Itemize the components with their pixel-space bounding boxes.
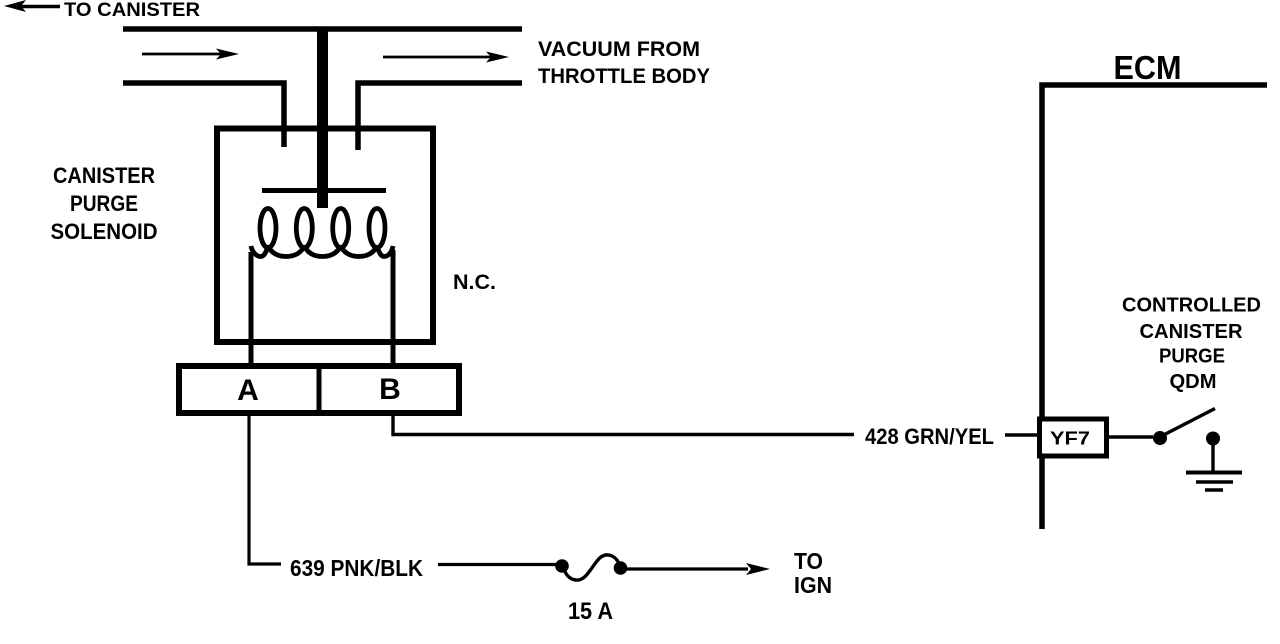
svg-text:TO: TO	[794, 548, 823, 574]
wire: lower pipe right segment	[358, 83, 522, 150]
svg-text:639 PNK/BLK: 639 PNK/BLK	[290, 555, 423, 581]
ground	[1186, 444, 1242, 490]
svg-text:CANISTER: CANISTER	[1140, 321, 1244, 343]
svg-text:YF7: YF7	[1050, 428, 1090, 449]
wire: coil lead right	[391, 250, 396, 366]
wire: fuse to ignition arrow	[627, 563, 770, 575]
svg-text:PURGE: PURGE	[70, 191, 138, 216]
label CONTROLLED CANISTER PURGE QDM	[1122, 295, 1261, 394]
svg-text:PURGE: PURGE	[1159, 346, 1225, 368]
svg-text:QDM: QDM	[1170, 371, 1217, 393]
svg-text:428 GRN/YEL: 428 GRN/YEL	[865, 424, 994, 449]
svg-text:SOLENOID: SOLENOID	[51, 219, 158, 244]
svg-text:IGN: IGN	[794, 572, 832, 598]
wire: center vacuum stem	[317, 27, 328, 208]
wire: pin A to fuse (639 PNK/BLK)	[249, 416, 281, 564]
ECM boundary	[1042, 85, 1267, 529]
wire: pin B to ECM (428 GRN/YEL)	[393, 416, 854, 435]
flow arrow left	[142, 49, 239, 60]
svg-text:N.C.: N.C.	[453, 271, 496, 294]
switch QDM driver	[1153, 409, 1220, 446]
valve plate	[262, 188, 386, 193]
wire: arrow to canister	[4, 0, 60, 12]
wire: YF7 to switch	[1105, 435, 1153, 438]
wire: upper vacuum pipe	[123, 26, 522, 32]
label TO IGN	[794, 548, 832, 598]
wire: label to YF7	[1005, 433, 1040, 436]
wire: lower pipe left segment	[123, 83, 284, 147]
svg-text:CANISTER: CANISTER	[53, 163, 155, 188]
svg-text:15 A: 15 A	[568, 598, 613, 625]
svg-text:B: B	[379, 373, 401, 406]
solenoid coil L1	[251, 209, 393, 257]
label VACUUM FROM THROTTLE BODY	[538, 38, 710, 88]
solenoid body box	[217, 129, 433, 343]
svg-text:A: A	[237, 374, 259, 407]
wire: label to fuse	[438, 563, 556, 566]
connector block	[179, 366, 459, 413]
label CANISTER PURGE SOLENOID	[51, 163, 158, 244]
svg-text:THROTTLE BODY: THROTTLE BODY	[538, 65, 710, 88]
flow arrow right	[383, 52, 509, 63]
svg-text:TO CANISTER: TO CANISTER	[64, 0, 200, 21]
pin YF7	[1040, 419, 1107, 456]
svg-text:CONTROLLED: CONTROLLED	[1122, 295, 1261, 317]
fuse 15A	[555, 555, 627, 580]
svg-text:ECM: ECM	[1114, 49, 1182, 86]
svg-text:VACUUM FROM: VACUUM FROM	[538, 38, 700, 61]
wire: coil lead left	[249, 252, 254, 366]
